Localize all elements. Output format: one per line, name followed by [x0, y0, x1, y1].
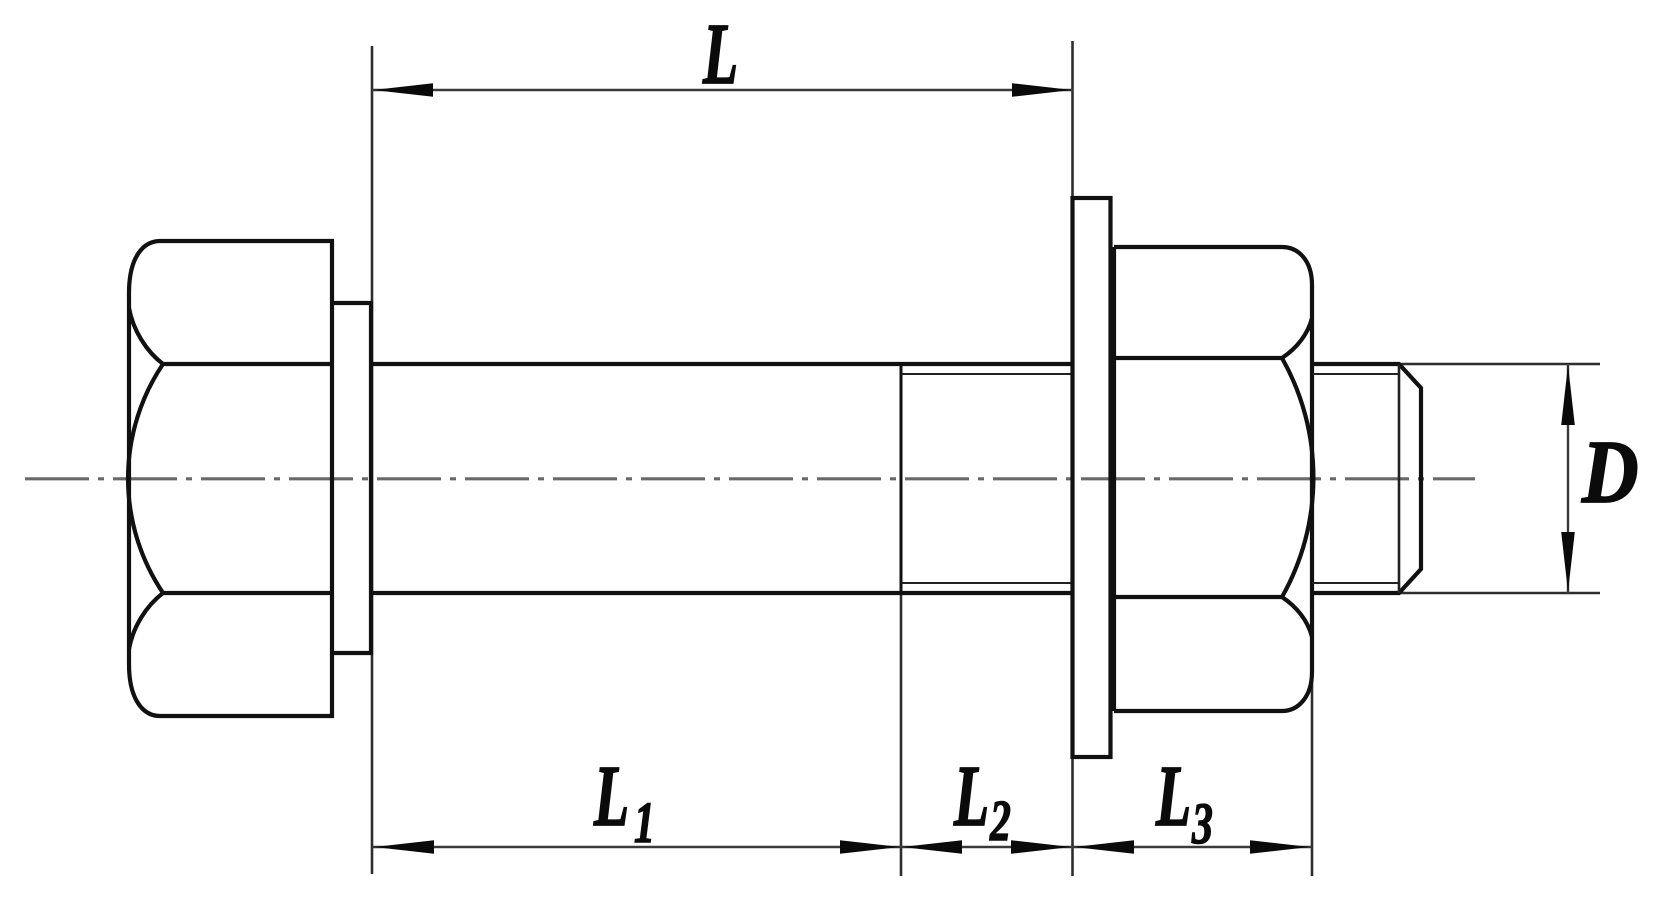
- arrow L3 left: [1074, 840, 1134, 854]
- svg-text:L: L: [702, 5, 738, 102]
- extension line at washer2 left x=1072 (L/L2/L3): [1071, 41, 1074, 876]
- thread start line: [900, 364, 903, 593]
- bolt head middle face chamfer arc: [128, 364, 163, 593]
- label L1: [593, 747, 629, 844]
- nut lower facet line: [1114, 595, 1282, 599]
- arrow L1 left: [374, 840, 434, 854]
- label L2: [953, 747, 989, 844]
- arrow L2 right: [1011, 840, 1071, 854]
- arrow L right: [1012, 83, 1072, 97]
- bolt head lower facet line: [163, 591, 332, 595]
- svg-text:D: D: [1581, 423, 1638, 522]
- arrow L left: [373, 83, 433, 97]
- D extension line top (thread od): [1399, 363, 1600, 365]
- bolt head bottom face chamfer arc: [129, 593, 163, 649]
- nut outline: [1114, 247, 1312, 711]
- stub thread minor top (thin): [1312, 373, 1399, 375]
- dimension line L1 L2 L3 (bottom): [373, 846, 1311, 848]
- D dimension line: [1567, 364, 1569, 593]
- protruding thread stub outline: [1312, 364, 1421, 593]
- svg-text:L: L: [1155, 747, 1191, 844]
- thread minor diameter bottom (thin): [901, 582, 1072, 584]
- arrow D top: [1561, 365, 1575, 425]
- stub thread minor bottom (thin): [1312, 582, 1399, 584]
- shaft bottom line: [371, 591, 1072, 595]
- nut top face chamfer arc: [1282, 318, 1312, 358]
- nut bottom face chamfer arc: [1282, 597, 1312, 637]
- nut middle face chamfer arc: [1282, 358, 1313, 597]
- svg-text:L: L: [953, 747, 989, 844]
- bolt head upper facet line: [163, 362, 332, 366]
- svg-text:3: 3: [1191, 791, 1213, 855]
- dimension line L (top): [372, 89, 1073, 91]
- D extension line bottom: [1399, 592, 1600, 594]
- extension line at nut right x=1312 (L3): [1311, 285, 1314, 876]
- bolt head top face chamfer arc: [129, 308, 163, 364]
- thread minor diameter top (thin): [901, 373, 1072, 375]
- bolt head outline: [129, 241, 332, 716]
- nut upper facet line: [1114, 356, 1282, 360]
- stub chamfer boundary line: [1398, 364, 1401, 593]
- arrow L3 right: [1250, 840, 1310, 854]
- svg-text:1: 1: [634, 790, 655, 854]
- label L3: [1155, 747, 1191, 844]
- shaft top line: [371, 362, 1072, 366]
- extension line at thread start x=901 (L1/L2): [900, 364, 903, 876]
- centerline (axis): [25, 477, 1475, 480]
- label D: [1581, 423, 1638, 522]
- washer (loose): [1073, 198, 1111, 757]
- label L: [702, 5, 738, 102]
- svg-text:L: L: [593, 747, 629, 844]
- washer under head (flange): [332, 303, 371, 653]
- arrow L1 right: [840, 840, 900, 854]
- extension line at washer face x=372 (for L and L1): [371, 46, 374, 874]
- svg-text:2: 2: [989, 788, 1011, 852]
- arrow D bottom: [1561, 532, 1575, 592]
- arrow L2 left: [902, 840, 962, 854]
